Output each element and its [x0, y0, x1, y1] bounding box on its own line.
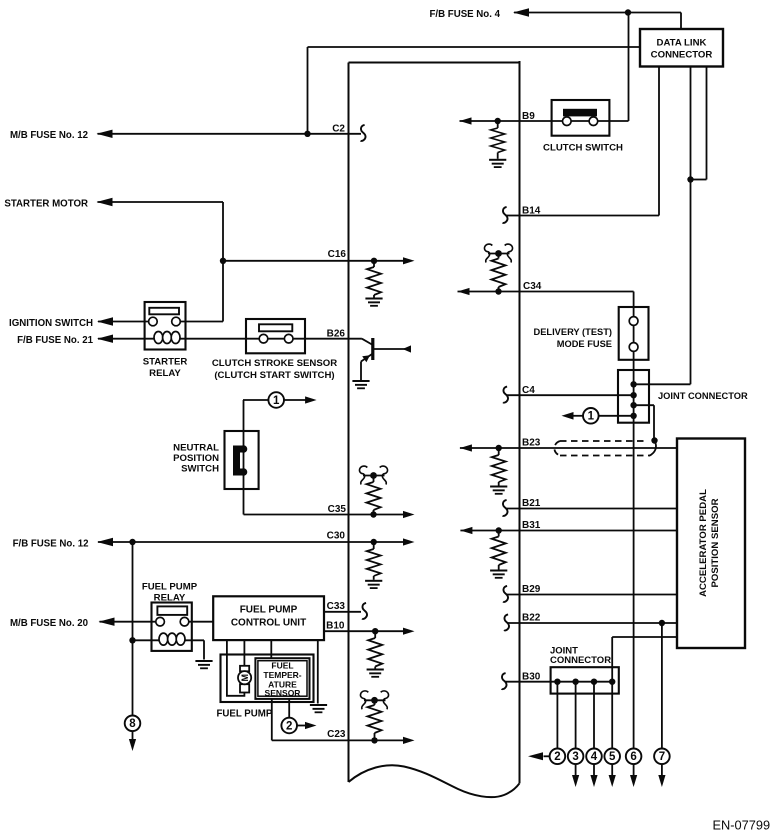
wire ignition switch to relay contact	[98, 321, 153, 323]
svg-text:F/B FUSE No. 12: F/B FUSE No. 12	[13, 539, 89, 550]
svg-text:EN-07799: EN-07799	[713, 818, 771, 833]
wire M/B FUSE No. 12 to C2	[98, 133, 362, 135]
svg-text:FUEL PUMP: FUEL PUMP	[217, 709, 273, 720]
svg-text:7: 7	[659, 751, 665, 763]
terminal clutch switch right	[589, 117, 598, 126]
node C23 resistor tap	[371, 737, 377, 743]
wire coil to ground	[203, 640, 205, 659]
svg-text:2: 2	[286, 720, 292, 732]
data link connector U1	[640, 29, 723, 67]
node B9 resistor tap	[495, 118, 501, 124]
svg-text:F/B FUSE No. 4: F/B FUSE No. 4	[429, 9, 500, 20]
terminal stroke sensor right	[284, 334, 293, 343]
wire code 7 drop	[661, 623, 663, 749]
clutch switch S2 contact bar	[563, 109, 597, 117]
shield around B23 wire	[554, 441, 650, 456]
starter relay K1 box	[145, 302, 186, 350]
wire fuse to joint connector chain	[633, 351, 635, 748]
wire M/B FUSE No. 20 to relay	[100, 621, 161, 623]
break B29 internal	[503, 586, 508, 602]
wire starter motor line	[98, 201, 224, 203]
svg-text:1: 1	[588, 411, 595, 423]
wire B14 from DLC	[506, 215, 520, 217]
svg-text:FUEL PUMP: FUEL PUMP	[240, 605, 298, 616]
internal rail break at C35	[359, 466, 387, 484]
arrow to F/B FUSE No. 21	[97, 335, 113, 343]
svg-text:B26: B26	[327, 329, 346, 340]
wire starter riser	[222, 202, 224, 322]
wire M/B FUSE No.12 branch riser	[307, 47, 309, 134]
break C2 internal	[361, 125, 366, 141]
svg-text:CLUTCH STROKE SENSOR: CLUTCH STROKE SENSOR	[212, 358, 337, 369]
terminal fuse bottom	[629, 343, 638, 352]
wire C4 from J1	[506, 394, 634, 396]
node B31 resistor tap	[496, 527, 502, 533]
wire code 3 drop	[575, 682, 577, 749]
svg-text:C33: C33	[327, 601, 346, 612]
svg-text:ACCELERATOR PEDAL: ACCELERATOR PEDAL	[698, 489, 709, 597]
ECM left edge	[348, 63, 350, 783]
svg-text:C23: C23	[327, 729, 346, 740]
wire F/B FUSE No. 21 to B26	[98, 338, 362, 340]
svg-text:JOINT CONNECTOR: JOINT CONNECTOR	[658, 391, 748, 401]
break B30 internal	[502, 673, 507, 689]
wire drop to data link connector	[680, 13, 682, 30]
resistor R-B10	[374, 631, 376, 638]
arrow C35 internal	[403, 511, 415, 518]
svg-text:B22: B22	[522, 612, 541, 623]
wire clutch switch supply from F/B fuse	[628, 13, 630, 122]
transistor Q1 at B26	[362, 339, 373, 345]
ECM top edge	[349, 62, 520, 64]
wire code 2 drop	[556, 682, 558, 749]
break C4 internal	[503, 387, 508, 403]
node B10 resistor tap	[372, 628, 378, 634]
connector code 1 right	[583, 408, 599, 424]
svg-text:CONNECTOR: CONNECTOR	[651, 50, 713, 61]
joint connector J1 box	[618, 370, 649, 423]
connector code 2 bottom	[550, 749, 566, 765]
ground Q1 emitter	[352, 380, 369, 389]
break C33 internal	[362, 603, 367, 619]
terminal fuel relay left	[156, 617, 165, 626]
svg-text:C34: C34	[523, 281, 542, 292]
arrow to F/B FUSE No. 12	[97, 538, 113, 546]
resistor R-B31	[498, 531, 500, 537]
svg-text:B14: B14	[522, 206, 541, 217]
svg-text:SWITCH: SWITCH	[181, 464, 219, 475]
svg-text:B10: B10	[326, 621, 345, 632]
wire code 4 drop	[593, 682, 595, 749]
node C2 branch	[304, 131, 310, 137]
accelerator pedal position sensor U3 box	[677, 439, 745, 649]
svg-text:3: 3	[572, 751, 578, 763]
wire J1 to shield drain	[634, 404, 654, 406]
connector code 3	[568, 749, 584, 765]
svg-text:1: 1	[273, 395, 280, 407]
ground B31 pull-down	[490, 570, 507, 579]
connector code 7	[654, 749, 670, 765]
arrow code 8 down	[132, 731, 134, 739]
wire DLC pin 2 to joint connector	[690, 67, 692, 385]
neutral position switch S3 box	[225, 431, 259, 489]
wire temp sensor to C23	[271, 699, 273, 741]
svg-text:MODE FUSE: MODE FUSE	[557, 339, 612, 349]
svg-text:C16: C16	[328, 249, 347, 260]
svg-text:F/B FUSE No. 21: F/B FUSE No. 21	[17, 335, 94, 346]
svg-text:CONTROL UNIT: CONTROL UNIT	[231, 618, 306, 629]
svg-text:RELAY: RELAY	[149, 368, 181, 379]
connector code 5	[604, 749, 620, 765]
ground control unit return	[310, 704, 327, 713]
svg-text:B21: B21	[522, 498, 541, 509]
node C30 resistor tap	[371, 539, 377, 545]
switch S3 thick contact	[237, 449, 244, 472]
node J1 pin 4	[630, 413, 636, 419]
wire B21	[506, 508, 677, 510]
wire B23	[460, 447, 677, 449]
node S3 lower contact	[240, 468, 248, 476]
node C35 resistor tap	[370, 511, 376, 517]
node C34 resistor tap	[495, 288, 501, 294]
resistor R-C34 pull-up	[498, 254, 500, 259]
svg-text:STARTER: STARTER	[143, 357, 188, 368]
wire control unit pin B to motor top	[243, 640, 245, 666]
arrow to STARTER MOTOR	[97, 198, 113, 206]
fuel pump relay K2 box	[152, 603, 192, 651]
arrow to M/B FUSE No. 20	[99, 618, 115, 626]
terminal clutch switch left	[563, 117, 572, 126]
node J1 pin 1	[630, 381, 636, 387]
wire relay to control unit	[185, 621, 214, 623]
connector code 6	[626, 749, 642, 765]
svg-text:POSITION: POSITION	[173, 453, 219, 464]
joint connector J2 box	[551, 667, 619, 693]
terminal starter relay left	[149, 317, 158, 326]
fuel pump control unit U2 box	[213, 596, 324, 640]
wire B9 to clutch switch	[460, 120, 610, 122]
node J2 pin 1	[554, 679, 560, 685]
wire C23	[272, 739, 403, 741]
resistor R-C16	[373, 261, 375, 267]
internal rail break at C23	[360, 691, 388, 709]
svg-text:5: 5	[609, 751, 616, 763]
wire B10 from control unit	[324, 630, 403, 632]
resistor R-C35 pull-up	[373, 476, 375, 483]
wire B22	[507, 622, 677, 624]
wire NPS to connector code 1	[243, 399, 268, 401]
svg-text:B29: B29	[522, 584, 541, 595]
wire fuse internal	[633, 325, 635, 342]
wire J1 to DLC pin 2	[634, 383, 691, 385]
svg-text:C30: C30	[327, 530, 346, 541]
node S3 upper contact	[240, 445, 248, 453]
resistor R-B9	[497, 121, 499, 128]
terminal fuse top	[629, 317, 638, 326]
arrow to M/B FUSE No. 12	[97, 130, 113, 138]
arrow to F/B FUSE No. 4	[513, 8, 529, 16]
ground B9 pull-down	[489, 159, 506, 168]
motor M1 fuel pump	[240, 666, 249, 672]
connector code 2 left	[281, 718, 297, 734]
resistor R-B23	[498, 448, 500, 455]
node J2 pin 2	[572, 679, 578, 685]
ECM torn bottom edge	[349, 765, 520, 797]
connector code 1 left	[268, 392, 284, 408]
node coil feed	[129, 637, 135, 643]
wire C16	[223, 260, 403, 262]
svg-text:2: 2	[554, 751, 560, 763]
svg-text:POSITION SENSOR: POSITION SENSOR	[710, 498, 721, 587]
svg-text:M/B FUSE No. 12: M/B FUSE No. 12	[10, 130, 88, 141]
wire control unit pin C to temp sensor	[270, 640, 272, 658]
svg-text:IGNITION SWITCH: IGNITION SWITCH	[9, 318, 93, 329]
terminal fuel relay right	[180, 617, 189, 626]
svg-text:STARTER MOTOR: STARTER MOTOR	[4, 199, 88, 210]
wire fuel pump feed riser	[132, 542, 134, 715]
node B22 branch to code 7	[659, 620, 665, 626]
svg-text:6: 6	[630, 751, 636, 763]
node J1 pin 3	[630, 402, 636, 408]
terminal starter relay right	[172, 317, 181, 326]
arrow B10 internal	[403, 628, 415, 635]
svg-text:B30: B30	[522, 671, 541, 682]
fuel temperature sensor S4 box	[255, 658, 309, 699]
node C16 resistor tap	[371, 258, 377, 264]
wire code 5 drop	[611, 637, 613, 749]
wire NPS riser	[243, 400, 245, 515]
wire B29	[506, 594, 677, 596]
svg-text:C2: C2	[332, 124, 345, 135]
resistor R-C30	[373, 542, 375, 549]
svg-text:C4: C4	[522, 385, 535, 396]
node C16 junction	[220, 258, 226, 264]
wire C35	[244, 514, 404, 516]
wire fuel pump relay coil	[133, 639, 205, 641]
relay K2 coil	[159, 633, 168, 645]
break B22 internal	[504, 614, 509, 630]
wire DLC pin 3	[706, 67, 708, 180]
ground B10 pull-down	[367, 669, 384, 678]
arrow to IGNITION SWITCH	[97, 317, 113, 325]
ECM right edge	[519, 61, 521, 783]
ground C16 pull-down	[365, 298, 382, 307]
wire C34	[458, 291, 634, 293]
wire control unit pin D to ground	[317, 640, 319, 703]
wire C34 drop to delivery fuse	[633, 292, 635, 317]
node F/B fuse junction	[625, 9, 631, 15]
wire B30	[505, 681, 612, 683]
node B30 joint pin 4	[609, 679, 615, 685]
node DLC pin merge	[687, 176, 693, 182]
svg-text:RELAY: RELAY	[154, 593, 186, 604]
arrow C16 internal	[403, 257, 415, 264]
node B23 resistor tap	[496, 445, 502, 451]
arrow C30 internal	[403, 538, 415, 545]
svg-text:C35: C35	[328, 504, 347, 515]
ground relay coil	[195, 660, 212, 669]
svg-text:(CLUTCH START SWITCH): (CLUTCH START SWITCH)	[214, 370, 334, 381]
wire relay contact to starter riser	[176, 321, 223, 323]
svg-text:FUEL PUMP: FUEL PUMP	[142, 582, 198, 593]
svg-text:4: 4	[591, 751, 598, 763]
svg-text:M: M	[240, 674, 250, 682]
svg-text:B23: B23	[522, 438, 541, 449]
arrow B9 internal	[460, 117, 472, 124]
node fuel pump feed branch	[129, 539, 135, 545]
wire control unit pin A to motor bottom	[227, 640, 245, 696]
arrow B31 internal	[460, 527, 472, 534]
wire APS low reference	[612, 636, 677, 638]
svg-text:DELIVERY (TEST): DELIVERY (TEST)	[533, 327, 612, 337]
break B14 internal	[503, 207, 508, 223]
ground C30 pull-down	[365, 580, 382, 589]
ground B23 pull-down	[490, 486, 507, 495]
node J2 pin 3	[591, 679, 597, 685]
clutch switch S2 box	[552, 100, 610, 136]
wire B31	[460, 530, 677, 532]
clutch stroke sensor S1 box	[246, 319, 305, 353]
wire C33 from control unit	[324, 611, 361, 613]
svg-text:M/B FUSE No. 20: M/B FUSE No. 20	[10, 618, 88, 629]
delivery (test) mode fuse F1	[619, 307, 649, 360]
break B21 internal	[503, 500, 508, 516]
arrow C23 internal	[403, 737, 415, 744]
svg-text:8: 8	[129, 718, 136, 730]
fuel pump outer box	[221, 655, 314, 703]
svg-text:CONNECTOR: CONNECTOR	[550, 655, 611, 666]
connector code 4	[586, 749, 602, 765]
relay K1 coil	[154, 332, 163, 344]
svg-text:SENSOR: SENSOR	[265, 688, 301, 698]
wire to data link connector left pin	[308, 46, 641, 48]
arrow B23 internal	[460, 444, 472, 451]
svg-text:NEUTRAL: NEUTRAL	[173, 443, 219, 454]
terminal stroke sensor left	[259, 334, 268, 343]
wire F/B FUSE No. 12 to C30	[98, 541, 403, 543]
resistor R-C23 pull-up	[374, 700, 376, 705]
svg-text:DATA LINK: DATA LINK	[657, 38, 707, 49]
internal rail break at C34	[484, 244, 512, 262]
wire F/B FUSE No. 4 feed	[514, 12, 681, 14]
node J1 pin 2	[630, 392, 636, 398]
arrow C34 internal	[458, 288, 470, 295]
node shield drain	[651, 437, 657, 443]
wire DLC pin 1 to B14	[658, 67, 660, 216]
wire temp sensor to connector code 2	[288, 699, 290, 718]
svg-text:CLUTCH SWITCH: CLUTCH SWITCH	[543, 143, 623, 154]
svg-text:B31: B31	[522, 520, 541, 531]
svg-text:B9: B9	[522, 111, 535, 122]
connector code 8	[125, 716, 141, 732]
wire J1 to connector code 1	[599, 415, 634, 417]
